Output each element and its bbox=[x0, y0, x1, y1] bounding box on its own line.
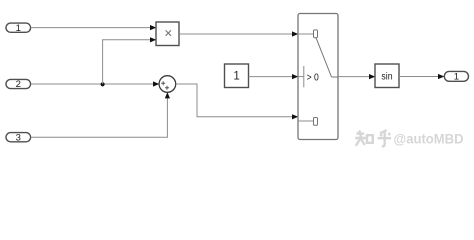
svg-text:@autoMBD: @autoMBD bbox=[394, 131, 464, 147]
svg-text:1: 1 bbox=[454, 72, 459, 83]
wire product to switch input1 bbox=[179, 31, 298, 36]
product block U1 bbox=[156, 22, 179, 46]
watermark zhihu logo text bbox=[355, 130, 391, 147]
wire inport3 to sum bottom bbox=[31, 92, 170, 137]
sum block (add) bbox=[159, 76, 176, 93]
constant block value 1 bbox=[225, 64, 249, 88]
wire inport2 to sum bbox=[31, 81, 159, 86]
inport 3 bbox=[6, 132, 31, 143]
wire switch to sin bbox=[338, 74, 375, 79]
svg-text:1: 1 bbox=[16, 23, 21, 34]
wire branch junction to product input 2 bbox=[103, 37, 157, 84]
wire sin to outport bbox=[399, 74, 444, 79]
svg-text:> 0: > 0 bbox=[307, 72, 319, 84]
sin block (trigonometric function) bbox=[375, 64, 399, 88]
switch input1 stub bbox=[298, 33, 314, 35]
switch block bbox=[298, 14, 338, 140]
wire sum to switch input3 bbox=[176, 84, 299, 119]
wire inport1 to product bbox=[31, 25, 156, 30]
svg-text:2: 2 bbox=[16, 79, 21, 90]
switch blade bbox=[316, 38, 338, 77]
junction dot on inport2 wire bbox=[101, 82, 105, 86]
outport 1 bbox=[444, 71, 468, 82]
svg-text:sin: sin bbox=[381, 71, 392, 82]
switch input1 port indicator bbox=[314, 30, 318, 38]
svg-text:1: 1 bbox=[233, 70, 239, 82]
switch input3 stub bbox=[298, 120, 314, 122]
switch input3 port indicator bbox=[314, 118, 318, 126]
svg-text:3: 3 bbox=[16, 132, 21, 143]
switch control threshold tick bbox=[303, 66, 305, 87]
wire constant to switch control input bbox=[249, 74, 299, 79]
switch control stub bbox=[298, 76, 304, 78]
inport 2 bbox=[6, 79, 31, 90]
inport 1 bbox=[6, 23, 31, 34]
